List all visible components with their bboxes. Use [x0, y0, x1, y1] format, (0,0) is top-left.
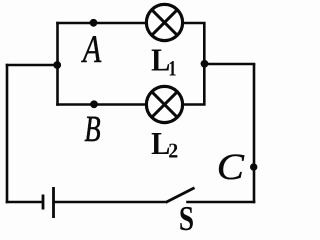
node C: [250, 163, 257, 170]
wire: left outer vertical: [6, 64, 9, 204]
wire: switch right contact to corner: [186, 201, 255, 204]
wire: right outer vertical: [253, 64, 256, 204]
svg-text:C: C: [217, 147, 246, 188]
node B: [90, 100, 98, 108]
label S: [179, 199, 194, 238]
svg-text:2: 2: [168, 139, 178, 163]
wire: top branch left horizontal: [56, 22, 146, 25]
switch blade (open): [166, 188, 195, 203]
junction node left: [53, 61, 61, 69]
wire: battery to switch: [54, 201, 166, 204]
node A: [90, 19, 98, 27]
battery negative plate (short): [42, 195, 45, 210]
label L1: [151, 42, 170, 78]
label L2: [151, 125, 170, 161]
wire: junction to outer left: [6, 64, 58, 67]
svg-text:1: 1: [168, 56, 176, 81]
svg-text:L: L: [151, 42, 170, 78]
junction node right: [201, 60, 209, 68]
wire: left inner vertical joining branches: [56, 22, 59, 106]
wire: bottom branch right + corner up to right junction: [183, 64, 204, 105]
wire: right junction horizontal: [204, 63, 255, 66]
label C: [217, 147, 246, 188]
lamp L1: [146, 4, 182, 40]
wire: bottom left to battery: [6, 201, 43, 204]
battery positive plate (long): [52, 187, 55, 218]
svg-text:S: S: [179, 199, 194, 232]
label B: [84, 109, 100, 150]
label A: [81, 28, 102, 71]
svg-text:A: A: [81, 28, 102, 71]
wire: top branch right + corner down to right junction: [183, 23, 204, 65]
lamp L2: [146, 86, 182, 122]
svg-text:B: B: [84, 109, 100, 150]
wire: bottom branch left horizontal: [56, 103, 146, 106]
